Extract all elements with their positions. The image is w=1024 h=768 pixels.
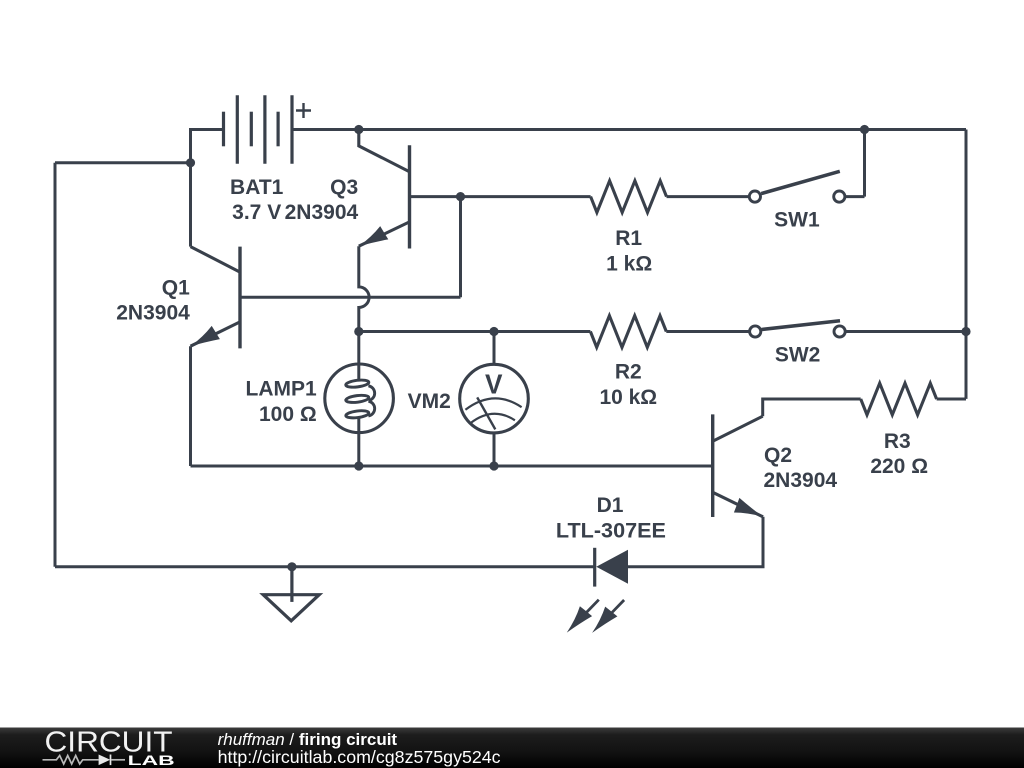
svg-text:2N3904: 2N3904: [764, 469, 838, 492]
svg-text:SW2: SW2: [775, 344, 821, 367]
svg-text:R1: R1: [615, 227, 642, 250]
transistor Q2: [713, 414, 763, 517]
svg-text:1 kΩ: 1 kΩ: [606, 253, 652, 276]
svg-text:10 kΩ: 10 kΩ: [599, 386, 657, 409]
wire: stub to left edge: [55, 161, 191, 164]
node: lamp top / R2 junction: [354, 327, 363, 336]
node: VM2 top junction: [489, 327, 498, 336]
node: Q3 base / R1 / Q1-base-link junction: [456, 192, 465, 201]
svg-text:Q2: Q2: [764, 444, 792, 467]
wire: R3 right lead: [937, 398, 966, 401]
node: battery left junction: [186, 158, 195, 167]
footer bar: [0, 728, 1024, 768]
wire: Q1 base wire: [240, 296, 461, 299]
lamp LAMP1: [325, 364, 394, 466]
svg-text:V: V: [485, 368, 503, 399]
svg-text:LAMP1: LAMP1: [246, 378, 317, 401]
svg-text:220 Ω: 220 Ω: [870, 455, 928, 478]
diode D1 (LED): [567, 548, 628, 633]
wire: Q2 emitter down and left to D1: [628, 517, 763, 567]
resistor R3: [861, 383, 937, 415]
switch SW2: [750, 321, 966, 337]
node: VM2 bottom junction: [489, 461, 498, 470]
wire: Q1 emitter down to mid rail: [189, 346, 192, 466]
svg-text:R2: R2: [615, 361, 642, 384]
resistor R1: [591, 181, 667, 213]
wire: battery left lead: [191, 130, 224, 132]
wire: mid rail to Q2 base: [191, 465, 713, 468]
switch SW1: [749, 171, 864, 202]
node: SW1 to top rail: [860, 125, 869, 134]
wire: bottom ground rail: [55, 565, 595, 568]
node: ground junction: [287, 562, 296, 571]
svg-text:LAB: LAB: [128, 752, 175, 768]
svg-text:SW1: SW1: [774, 209, 820, 232]
svg-text:Q1: Q1: [162, 277, 190, 300]
svg-text:BAT1: BAT1: [230, 176, 284, 199]
transistor Q3: [359, 130, 410, 249]
wire: right edge vertical: [965, 130, 968, 399]
resistor R2: [590, 316, 666, 348]
ground: [263, 567, 319, 621]
wire: top rail from battery to right edge: [292, 128, 966, 131]
svg-text:http://circuitlab.com/cg8z575g: http://circuitlab.com/cg8z575gy524c: [218, 747, 501, 767]
svg-text:2N3904: 2N3904: [285, 201, 359, 224]
wire: R1 to SW1: [667, 195, 749, 198]
wire: vertical link from R1 wire down to Q1 base wire: [459, 197, 462, 298]
svg-text:2N3904: 2N3904: [116, 302, 190, 325]
svg-text:Q3: Q3: [330, 176, 358, 199]
logo circuit glyph: [43, 755, 126, 766]
svg-text:R3: R3: [884, 430, 911, 453]
wire: left drop from battery to Q1 collector: [189, 130, 192, 247]
svg-text:LTL-307EE: LTL-307EE: [556, 520, 666, 543]
wire: R2 to SW2: [666, 330, 748, 333]
wire: left edge vertical: [54, 163, 57, 567]
svg-text:rhuffman / firing circuit: rhuffman / firing circuit: [218, 730, 398, 749]
transistor Q1: [191, 247, 241, 349]
node: lamp bottom junction: [354, 461, 363, 470]
node: SW2 to right edge junction: [961, 327, 970, 336]
svg-text:VM2: VM2: [408, 390, 451, 413]
wire: R3 left lead down to Q2 collector: [763, 399, 861, 416]
voltmeter VM2: [460, 332, 529, 467]
wire: Q3 emitter vertical with hop over Q1 base wire: [359, 246, 369, 365]
wire: Q3 base to R1 (through node): [410, 195, 591, 198]
svg-text:3.7 V: 3.7 V: [232, 201, 281, 224]
wire: R2 feed wire: [359, 330, 591, 333]
svg-text:100 Ω: 100 Ω: [259, 403, 317, 426]
battery BAT1: [224, 95, 312, 164]
node: battery plus to Q3 collector: [354, 125, 363, 134]
svg-text:D1: D1: [597, 494, 624, 517]
wire: SW1 up to top rail: [863, 130, 866, 197]
